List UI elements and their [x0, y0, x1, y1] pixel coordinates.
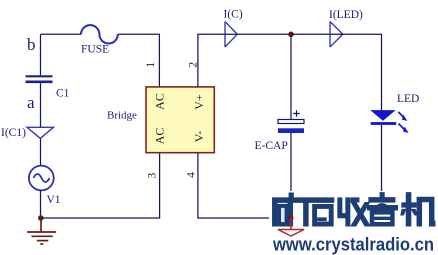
- wire junction down to E-CAP: [290, 34, 292, 119]
- watermark logo: [269, 191, 438, 255]
- pin name AC bottom: [153, 128, 167, 145]
- char kuang: [273, 193, 304, 226]
- wire bridge pin 2 to top rail: [198, 34, 225, 87]
- svg-text:I(C): I(C): [224, 8, 243, 20]
- char shi: [304, 198, 334, 226]
- ground: [27, 218, 56, 244]
- svg-text:a: a: [27, 93, 35, 112]
- svg-text:www.crystalradio.cn: www.crystalradio.cn: [272, 235, 434, 255]
- svg-text:Bridge: Bridge: [107, 110, 137, 122]
- svg-text:LED: LED: [397, 93, 419, 105]
- www.crystalradio.cn: [272, 235, 434, 255]
- pin name V+: [192, 94, 206, 110]
- wire V1 to ground junction: [40, 190, 42, 218]
- current probe I(C): [224, 8, 243, 47]
- wire C1 to probe I(C1): [40, 83, 42, 127]
- wire LED to bottom rail: [381, 125, 383, 218]
- svg-text:V-: V-: [192, 131, 206, 143]
- pin 4 number: [186, 172, 198, 178]
- node a: [27, 93, 35, 112]
- svg-text:I(LED): I(LED): [329, 9, 363, 21]
- current probe I(C1): [1, 127, 54, 139]
- node b: [27, 35, 36, 54]
- svg-text:4: 4: [186, 172, 198, 178]
- wire top-left rail from node b to fuse: [41, 33, 82, 35]
- ground earth under E-CAP: [278, 218, 304, 236]
- wire bottom-left rail to bridge pin 3: [41, 153, 160, 218]
- junction node at E-CAP top: [288, 32, 294, 38]
- wire I(LED) to LED branch: [330, 34, 382, 110]
- pin 1 number: [145, 62, 157, 68]
- svg-text:FUSE: FUSE: [81, 43, 109, 55]
- char ji: [401, 193, 435, 226]
- svg-text:AC: AC: [153, 93, 167, 110]
- wire junction to I(LED): [291, 33, 330, 35]
- wire I(C1) to V1: [40, 138, 42, 165]
- svg-text:C1: C1: [56, 88, 70, 100]
- svg-text:3: 3: [147, 172, 159, 178]
- junction node at V1 ground: [38, 215, 44, 221]
- pin 2 number: [188, 62, 200, 68]
- wire E-CAP to bottom rail: [290, 133, 292, 218]
- LED D1: [370, 93, 419, 133]
- pin name AC top: [153, 93, 167, 110]
- wire fuse to bridge pin 1: [118, 34, 160, 87]
- svg-text:I(C1): I(C1): [1, 127, 26, 139]
- char yin: [367, 193, 397, 226]
- wire node b down to C1: [40, 34, 42, 75]
- wire I(C) to junction: [225, 33, 291, 35]
- current probe I(LED): [329, 9, 363, 47]
- capacitor E-CAP: [255, 110, 305, 152]
- svg-text:b: b: [27, 35, 36, 54]
- wire bridge pin 4 to bottom-right rail: [198, 153, 382, 218]
- junction node at E-CAP bottom: [289, 216, 294, 221]
- capacitor C1: [26, 76, 70, 99]
- pin name V-: [192, 131, 206, 143]
- svg-text:V1: V1: [47, 194, 61, 206]
- AC source V1: [29, 166, 61, 207]
- svg-text:V+: V+: [192, 94, 206, 110]
- bridge rectifier: [107, 87, 214, 153]
- svg-text:AC: AC: [153, 128, 167, 145]
- pin 3 number: [147, 172, 159, 178]
- fuse FUSE: [81, 25, 118, 55]
- char shou: [338, 198, 370, 226]
- svg-text:1: 1: [145, 62, 157, 68]
- svg-text:E-CAP: E-CAP: [255, 140, 288, 152]
